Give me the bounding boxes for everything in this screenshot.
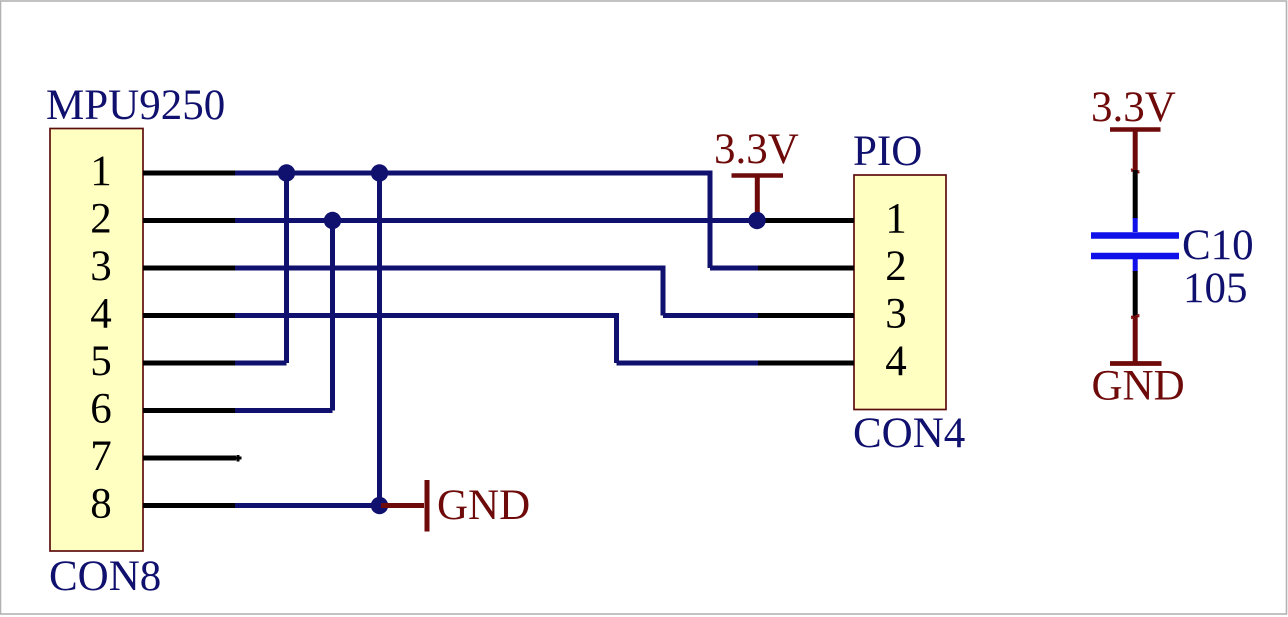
pin 6 of CON8 xyxy=(143,408,237,413)
net wires xyxy=(235,171,758,506)
svg-text:7: 7 xyxy=(90,433,112,480)
wire horizontal into CON4 pin 3 xyxy=(663,313,758,318)
wire horizontal into CON4 pin 4 xyxy=(617,361,759,366)
ground symbol GND at capacitor xyxy=(1110,316,1162,364)
svg-text:4: 4 xyxy=(885,338,907,385)
connector CON8 body (MPU9250) xyxy=(50,129,143,552)
wire vertical at x=286.5 (pin1 to pin5) xyxy=(284,173,289,363)
power port 3.3V at capacitor C10 xyxy=(1110,130,1161,172)
pin hotspot tick (top) xyxy=(1131,169,1139,173)
ground symbol GND (middle) xyxy=(381,480,427,532)
svg-text:3: 3 xyxy=(90,243,112,290)
svg-text:4: 4 xyxy=(90,291,112,338)
wire vertical at x=379.5 (pin1 to pin8/GND) xyxy=(377,173,382,506)
pin 2 of CON4 xyxy=(757,266,854,271)
capacitor C10 top pin xyxy=(1133,170,1138,219)
svg-text:CON8: CON8 xyxy=(49,553,161,600)
svg-text:GND: GND xyxy=(1092,363,1185,410)
svg-text:6: 6 xyxy=(90,386,112,433)
pin 7 end cross xyxy=(235,455,242,462)
svg-text:2: 2 xyxy=(885,243,907,290)
ground bar xyxy=(425,480,430,532)
svg-text:CON4: CON4 xyxy=(853,410,965,457)
wire CON8.1 horizontal xyxy=(235,171,710,176)
svg-text:2: 2 xyxy=(90,196,112,243)
capacitor C10 symbol xyxy=(1091,218,1179,272)
junction at (379.5,505.5) xyxy=(371,497,388,514)
wire CON8.4 horizontal xyxy=(235,313,617,318)
wire vertical at x=333 (pin2 to pin6) xyxy=(330,221,335,411)
junction at (379.5,173) xyxy=(371,164,388,181)
wire CON8.2 horizontal to CON4.1 xyxy=(235,218,757,223)
connector CON4 body (PIO) xyxy=(854,175,946,410)
svg-text:105: 105 xyxy=(1183,265,1248,312)
svg-text:1: 1 xyxy=(885,196,907,243)
pin 7 of CON8 (no connect) xyxy=(143,456,236,461)
wire CON8.8 horizontal xyxy=(235,503,380,508)
junction at (757,220.5) xyxy=(748,212,765,229)
pin 5 of CON8 xyxy=(143,361,237,366)
svg-text:3.3V: 3.3V xyxy=(1091,84,1176,131)
wire vertical at x=616.5 xyxy=(614,313,619,363)
wire CON8.3 horizontal xyxy=(235,266,663,271)
svg-text:1: 1 xyxy=(90,148,112,195)
power port 3.3V at CON4 pin1 xyxy=(732,176,784,222)
pin 1 of CON4 xyxy=(757,218,854,223)
wire vertical at x=710 to CON4.2 xyxy=(708,171,713,269)
pin 1 of CON8 xyxy=(143,171,237,176)
junction at (286.5,173) xyxy=(278,164,295,181)
capacitor C10 bottom pin xyxy=(1133,271,1138,317)
svg-text:MPU9250: MPU9250 xyxy=(46,82,225,129)
junction at (333,220.5) xyxy=(324,212,341,229)
svg-text:5: 5 xyxy=(90,338,112,385)
svg-text:PIO: PIO xyxy=(853,128,922,175)
wire horizontal into CON4 pin 2 xyxy=(710,266,758,271)
pin 3 of CON4 xyxy=(757,313,854,318)
wire CON8.5 horizontal xyxy=(235,361,287,366)
svg-text:8: 8 xyxy=(90,481,112,528)
wire CON8.6 horizontal xyxy=(235,408,333,413)
wire junction to ground bar xyxy=(381,503,424,508)
pin 8 of CON8 xyxy=(143,503,237,508)
svg-text:3.3V: 3.3V xyxy=(714,126,799,173)
wire vertical at x=663 xyxy=(661,266,666,316)
pin hotspot tick (bottom) xyxy=(1131,315,1139,319)
pin 4 of CON8 xyxy=(143,313,237,318)
svg-text:3: 3 xyxy=(885,291,907,338)
pin 3 of CON8 xyxy=(143,266,237,271)
pin 4 of CON4 xyxy=(757,361,854,366)
svg-text:GND: GND xyxy=(437,482,530,529)
pin 2 of CON8 xyxy=(143,218,237,223)
svg-text:C10: C10 xyxy=(1182,222,1254,269)
